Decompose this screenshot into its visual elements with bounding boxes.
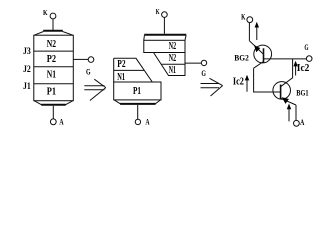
svg-text:K: K <box>43 8 48 17</box>
node A (middle panel) <box>135 118 150 127</box>
transistor BG2 circle <box>254 45 272 63</box>
node G (right panel) <box>304 43 312 62</box>
svg-text:J2: J2 <box>23 64 31 74</box>
svg-text:G: G <box>304 43 308 52</box>
svg-text:N1: N1 <box>117 72 125 83</box>
transistor BG2 emitter to K (NPN arrowhead toward K) <box>249 41 263 55</box>
right stack shared-layer parallelogram (middle panel) <box>154 53 186 76</box>
main 4-layer box (left panel) <box>34 35 74 101</box>
wire gate lead (middle panel) <box>185 62 201 64</box>
node K (middle panel) <box>156 8 168 17</box>
top cap electrode (middle panel) <box>144 35 187 40</box>
svg-text:N2: N2 <box>47 39 56 50</box>
svg-text:G: G <box>86 67 91 76</box>
svg-text:P2: P2 <box>117 59 125 70</box>
left stack inner junction line <box>114 69 145 71</box>
node G (left panel) <box>86 57 94 77</box>
wire gate lead (left panel) <box>73 58 88 60</box>
svg-text:A: A <box>59 118 64 127</box>
svg-text:N1: N1 <box>47 70 56 81</box>
svg-text:BG1: BG1 <box>296 88 308 98</box>
junction line J3 <box>34 50 74 52</box>
svg-text:P2: P2 <box>47 54 56 65</box>
svg-text:J3: J3 <box>23 46 31 56</box>
svg-text:P1: P1 <box>47 87 56 98</box>
P1 box (middle panel) <box>114 82 161 100</box>
svg-text:K: K <box>156 8 160 16</box>
left stack P2/N1 parallelogram (middle panel) <box>114 58 153 82</box>
svg-text:Ic2: Ic2 <box>297 63 310 74</box>
node G (middle panel) <box>201 60 206 78</box>
current arrow Ic2 (right, on BG1 collector wire) <box>293 61 297 76</box>
node A (right panel) <box>294 118 305 127</box>
wire BG2 collector down and right to BG1 base <box>254 68 281 92</box>
svg-text:K: K <box>241 12 246 21</box>
node K (right panel) <box>241 12 253 22</box>
transistor BG1 circle <box>273 82 291 100</box>
top cap electrode (left panel) <box>34 31 73 35</box>
transistor BG2 base bar <box>263 48 265 62</box>
junction line J1 <box>34 83 74 85</box>
svg-text:BG2: BG2 <box>234 52 249 62</box>
wire K stem (left panel) <box>52 19 54 31</box>
current arrow Ia (unlabeled, beside A stem) <box>287 104 291 122</box>
wire A stem (middle panel) <box>137 105 139 119</box>
wire A stem (left panel) <box>52 106 54 119</box>
svg-text:A: A <box>300 118 305 127</box>
transistor BG1 emitter to A (PNP arrowhead toward bar) <box>281 97 296 105</box>
right stack N2 box (middle panel) <box>144 40 185 52</box>
svg-text:P1: P1 <box>133 86 141 97</box>
transistor BG1 base bar <box>280 85 282 100</box>
bottom cap electrode (middle panel) <box>114 100 160 104</box>
svg-text:N2: N2 <box>169 41 176 52</box>
wire K stem (right panel) <box>248 23 250 41</box>
svg-text:J1: J1 <box>23 81 31 91</box>
svg-text:N2: N2 <box>169 53 176 64</box>
svg-text:A: A <box>145 118 149 127</box>
svg-text:N1: N1 <box>169 65 176 76</box>
transistor BG2 collector <box>254 62 264 69</box>
current arrow Ic2 (left, on BG2 collector wire) <box>245 75 249 92</box>
node A (left panel) <box>50 118 63 127</box>
bottom cap electrode (left panel) <box>34 101 73 105</box>
wire K stem (middle panel) <box>163 17 165 33</box>
current arrow Ik (unlabeled, beside K stem) <box>255 22 259 40</box>
wire A stem (right panel) <box>295 105 297 120</box>
junction line J2 <box>34 66 74 68</box>
node K (left panel terminal) <box>43 8 56 19</box>
svg-text:Ic2: Ic2 <box>233 77 244 88</box>
right stack inner junction line <box>161 63 185 65</box>
transistor BG2 base lead to gate node <box>264 58 307 60</box>
svg-text:G: G <box>201 68 206 78</box>
wire BG1 collector up to gate line junction <box>281 59 293 87</box>
